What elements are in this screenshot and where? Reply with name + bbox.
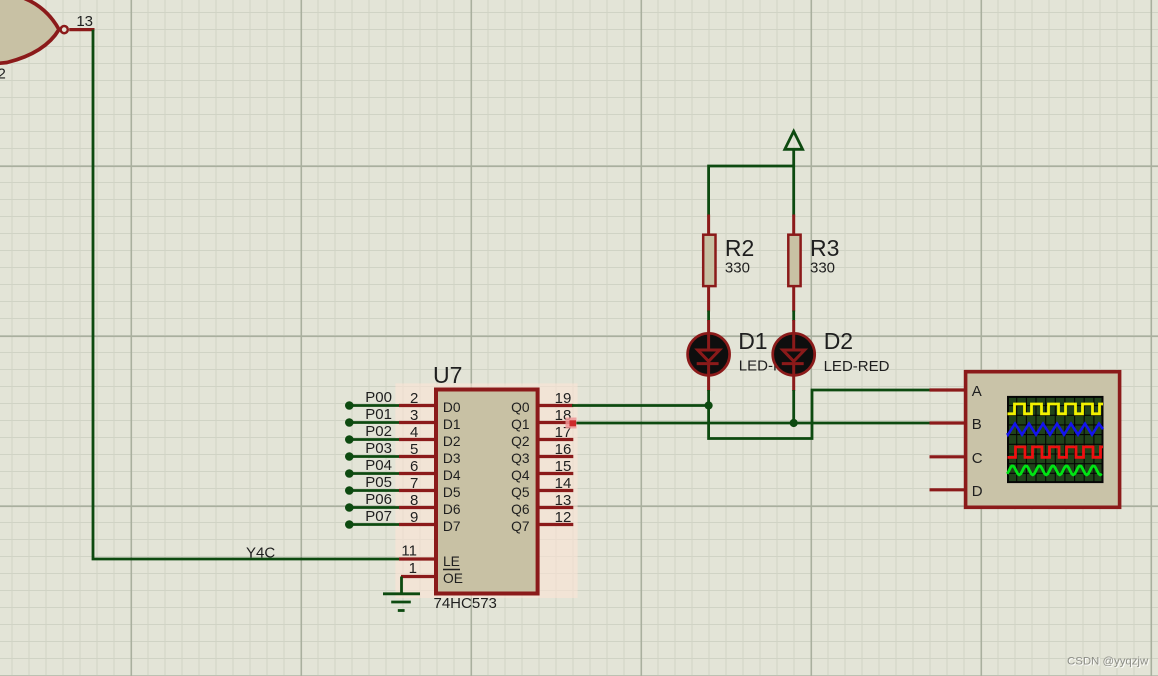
oscilloscope pin C stub [930,455,965,458]
wire P01 [349,421,400,424]
resistor R3 body [788,235,800,286]
svg-text:C: C [972,450,983,467]
svg-text:P05: P05 [365,474,392,491]
LED D1 anode pin stub [707,320,710,334]
svg-text:9: 9 [410,509,418,526]
svg-text:LED-RED: LED-RED [824,358,890,375]
svg-text:12: 12 [555,509,572,526]
waveform channel D (green sine) [1007,466,1102,475]
oscilloscope screen graticule [1008,396,1104,483]
U7 pin 5 stub (D3) [399,455,435,458]
svg-text:P01: P01 [365,406,392,423]
LED D1 diode symbol [697,334,720,375]
svg-text:D1: D1 [738,328,767,354]
wire: R2 to D1 [707,311,710,322]
wire P00 [349,404,400,407]
svg-text:D7: D7 [443,519,461,534]
gate U2 output pin stub [69,28,94,31]
svg-text:4: 4 [410,424,418,441]
junction dot P03 [345,452,354,461]
U7 pin 7 stub (D5) [399,489,435,492]
svg-text:D2: D2 [443,434,461,449]
svg-text:B: B [972,416,982,433]
wire: Q0 (pin 19) to oscilloscope A [572,390,931,439]
svg-text:P04: P04 [365,457,392,474]
svg-text:330: 330 [810,260,835,277]
LED D2 cathode pin stub [792,375,795,391]
wire: Q1 (pin 18) to oscilloscope B [572,422,931,425]
wire P04 [349,472,400,475]
LED D1 body circle [688,333,730,375]
svg-text:Q1: Q1 [511,417,529,432]
U7 pin 18 stub (Q1) [539,421,574,424]
U7 pin 4 stub (D2) [399,438,435,441]
LED D2 anode pin stub [792,320,795,334]
resistor R3 top pin stub [792,215,795,235]
wire P05 [349,489,400,492]
wire: R3 to D2 [792,311,795,322]
junction dot P06 [345,503,354,512]
wire: D1 cathode to Q0 net [707,390,710,406]
junction dot P02 [345,435,354,444]
oscilloscope pin A stub [930,388,965,391]
svg-text:LE: LE [443,554,460,569]
svg-text:D0: D0 [443,400,461,415]
svg-text:U7: U7 [433,362,462,388]
junction node Q0/D1 [705,401,713,409]
svg-text:74HC573: 74HC573 [434,595,497,612]
selection highlight behind U7 [395,383,577,598]
wire: gate output down-left side to U7 LE pin (net Y4C) [93,30,400,559]
gate U2 (partial NOR gate body) [0,0,59,64]
wire P03 [349,455,400,458]
U7 pin 17 stub (Q2) [539,438,574,441]
svg-text:Q0: Q0 [511,400,530,415]
U7 pin 14 stub (Q5) [539,489,574,492]
logic-state marker on pin 18 [566,418,577,429]
svg-text:D6: D6 [443,502,461,517]
svg-text:Q3: Q3 [511,451,530,466]
svg-text:1: 1 [409,560,417,577]
oscilloscope pin B stub [930,421,965,424]
svg-text:14: 14 [555,475,572,492]
svg-text:2: 2 [0,66,6,83]
svg-text:3: 3 [410,407,418,424]
junction dot P04 [345,469,354,478]
svg-text:8: 8 [410,492,418,509]
wire: OE pin to ground [400,577,403,594]
junction dot P00 [345,401,354,410]
oscilloscope pin D stub [930,488,965,491]
svg-text:19: 19 [555,390,572,407]
svg-text:Q7: Q7 [511,519,529,534]
wire P06 [349,506,400,509]
junction dot P07 [345,520,354,529]
oscilloscope body [966,372,1120,508]
U7 pin 3 stub (D1) [399,421,435,424]
svg-text:D5: D5 [443,485,461,500]
resistor R3 bottom pin stub [792,287,795,312]
oscilloscope screen [1008,397,1103,482]
U7 pin 16 stub (Q3) [539,455,574,458]
waveform channel C (red square) [1008,447,1104,458]
svg-text:P03: P03 [365,440,392,457]
U7 pin 12 stub (Q7) [539,523,574,526]
svg-text:OE: OE [443,571,463,586]
U7 pin 15 stub (Q4) [539,472,574,475]
wire: power symbol down to rail [792,149,795,215]
svg-text:P07: P07 [365,508,392,525]
svg-text:D1: D1 [443,417,461,432]
svg-text:Y4C: Y4C [246,544,275,561]
svg-text:13: 13 [555,492,572,509]
wire: VCC rail horizontal [709,166,794,216]
svg-text:16: 16 [555,441,572,458]
U7 pin 8 stub (D6) [399,506,435,509]
chip U7 74HC573 body [436,390,538,594]
svg-text:A: A [972,383,982,400]
svg-text:CSDN @yyqzjw: CSDN @yyqzjw [1067,655,1149,667]
U7 pin 6 stub (D4) [399,472,435,475]
svg-text:Q4: Q4 [511,468,530,483]
LED D1 cathode pin stub [707,375,710,391]
svg-text:P06: P06 [365,491,392,508]
svg-text:Q6: Q6 [511,502,530,517]
svg-text:2: 2 [410,390,418,407]
resistor R2 body [703,235,715,286]
svg-text:R2: R2 [725,235,754,261]
U7 pin 13 stub (Q6) [539,506,574,509]
svg-text:6: 6 [410,458,418,475]
svg-text:Q5: Q5 [511,485,530,500]
svg-text:330: 330 [725,260,750,277]
svg-text:P00: P00 [365,389,392,406]
wire P02 [349,438,400,441]
U7 pin 2 stub (D0) [399,404,435,407]
junction dot P05 [345,486,354,495]
svg-text:5: 5 [410,441,418,458]
resistor R2 bottom pin stub [707,287,710,312]
U7 pin 1 stub (OE) [401,575,435,578]
svg-text:D3: D3 [443,451,461,466]
svg-text:7: 7 [410,475,418,492]
wire P07 [349,523,400,526]
waveform channel A (yellow square) [1008,404,1104,414]
U7 pin 9 stub (D7) [399,523,435,526]
resistor R2 top pin stub [707,215,710,235]
LED D2 body circle [773,333,815,375]
svg-text:R3: R3 [810,235,839,261]
gate U2 output inversion bubble [61,26,68,33]
U7 pin 11 stub (LE) [399,557,435,560]
junction dot P01 [345,418,354,427]
svg-text:15: 15 [555,458,572,475]
junction node Q1/D2 [790,419,798,427]
svg-text:11: 11 [401,543,417,560]
svg-text:P02: P02 [365,423,392,440]
LED D2 diode symbol [782,334,805,375]
wire: D2 cathode to Q1 net [792,390,795,423]
svg-text:13: 13 [76,13,93,30]
svg-text:D4: D4 [443,468,461,483]
svg-text:D2: D2 [824,328,853,354]
U7 pin 19 stub (Q0) [539,404,574,407]
ground symbol [383,594,420,611]
waveform channel B (blue triangle) [1007,424,1103,435]
power symbol (VCC arrow) [785,131,803,149]
svg-text:Q2: Q2 [511,434,529,449]
svg-text:D: D [972,483,983,500]
